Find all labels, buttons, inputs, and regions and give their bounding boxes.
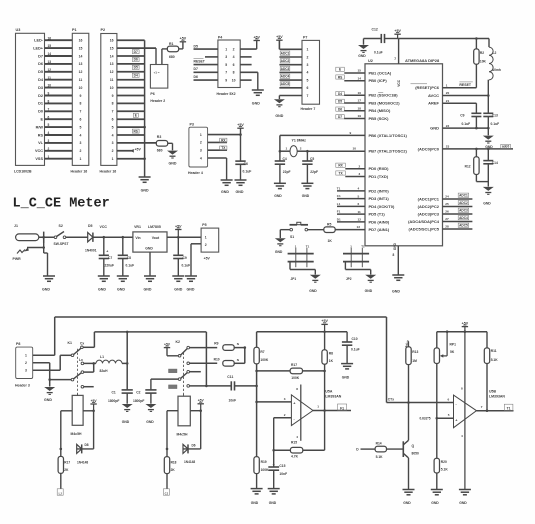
net label T1 wire to U2 pin 4 xyxy=(337,190,365,192)
svg-text:+5V: +5V xyxy=(204,256,211,260)
svg-text:10K: 10K xyxy=(480,60,487,64)
wire P4 pin7 with net label D7 xyxy=(194,71,218,73)
svg-text:PD0 (RXD): PD0 (RXD) xyxy=(369,166,390,171)
svg-text:GND: GND xyxy=(122,420,130,424)
capacitor C7 220uF xyxy=(103,237,105,255)
wire C12 to +5V node xyxy=(385,38,399,40)
wire K2 pole2 stub xyxy=(190,371,201,373)
capacitor C5 22pF xyxy=(306,151,308,161)
svg-text:D6: D6 xyxy=(134,58,138,62)
svg-text:PD4 (XCK/T0): PD4 (XCK/T0) xyxy=(369,204,395,209)
power +5V at U5A rail xyxy=(321,323,327,325)
svg-text:100K: 100K xyxy=(291,376,300,380)
svg-text:PB4 (MISO): PB4 (MISO) xyxy=(369,108,391,113)
svg-text:GND: GND xyxy=(269,501,277,505)
svg-text:LM393AN: LM393AN xyxy=(325,394,341,398)
svg-text:6: 6 xyxy=(233,63,235,67)
svg-text:6: 6 xyxy=(358,202,360,206)
svg-text:+5V: +5V xyxy=(321,319,328,323)
wire K1 NC stub xyxy=(84,386,94,388)
svg-text:D5: D5 xyxy=(338,100,342,104)
svg-text:ADC5: ADC5 xyxy=(281,82,290,86)
svg-text:GND: GND xyxy=(275,250,283,254)
svg-text:C7: C7 xyxy=(108,256,112,260)
svg-text:F1: F1 xyxy=(337,210,341,214)
svg-text:VL: VL xyxy=(38,141,44,145)
ground at P4 xyxy=(252,90,264,95)
svg-text:9: 9 xyxy=(350,131,352,135)
svg-text:22pF: 22pF xyxy=(283,170,291,174)
diode D5 1N4001 xyxy=(88,233,93,242)
svg-text:ADC3: ADC3 xyxy=(459,209,468,213)
junction R2 top xyxy=(475,37,478,40)
svg-text:28: 28 xyxy=(445,225,449,229)
junction P2 pin5 xyxy=(143,126,146,129)
wire K1 pole2 throw xyxy=(84,371,94,373)
svg-text:16: 16 xyxy=(79,39,83,43)
ground at U5B xyxy=(459,490,471,495)
svg-text:5: 5 xyxy=(448,413,450,417)
svg-text:PD7 (AIN1): PD7 (AIN1) xyxy=(369,227,390,232)
wire P4 pin1 with net label D5 xyxy=(194,48,218,50)
svg-text:17: 17 xyxy=(358,99,362,103)
svg-text:4: 4 xyxy=(80,133,82,137)
svg-text:R7: R7 xyxy=(260,350,264,354)
wire U2 pin22 GND xyxy=(443,127,489,129)
svg-text:ADC4: ADC4 xyxy=(459,216,468,220)
svg-text:11: 11 xyxy=(110,78,114,82)
power +5V at K2 pole1 xyxy=(164,347,170,349)
svg-text:U5B: U5B xyxy=(489,390,496,394)
svg-text:0.1uF: 0.1uF xyxy=(351,347,360,351)
svg-text:PD5 (T1): PD5 (T1) xyxy=(369,212,386,217)
svg-text:M4c5H: M4c5H xyxy=(177,432,188,436)
svg-text:adc0: adc0 xyxy=(502,145,509,149)
transistor Q 8050 xyxy=(402,441,404,457)
svg-text:VR1: VR1 xyxy=(134,225,141,229)
svg-text:Header 4: Header 4 xyxy=(188,171,203,175)
svg-text:Header 7: Header 7 xyxy=(301,107,316,111)
svg-text:D7: D7 xyxy=(338,115,342,119)
svg-text:D5: D5 xyxy=(38,70,43,74)
svg-text:8: 8 xyxy=(233,71,235,75)
svg-text:K1: K1 xyxy=(68,341,73,345)
svg-text:100K: 100K xyxy=(261,468,270,472)
wire U2 pin21 AREF xyxy=(443,102,477,104)
svg-text:2: 2 xyxy=(48,147,50,151)
junction adc0 R12 xyxy=(475,148,478,151)
svg-text:5K: 5K xyxy=(450,350,455,354)
svg-text:D0: D0 xyxy=(38,110,43,114)
ADC header P7 xyxy=(302,40,320,104)
svg-text:10mh: 10mh xyxy=(492,68,501,72)
svg-text:+5V: +5V xyxy=(164,342,171,346)
svg-text:E: E xyxy=(135,114,137,118)
wire D5 to VR1 Vin xyxy=(93,236,133,238)
svg-text:C9: C9 xyxy=(183,256,187,260)
junction C13 bottom xyxy=(487,127,490,130)
junction Lx xyxy=(92,362,95,365)
svg-text:R14: R14 xyxy=(376,442,382,446)
svg-text:GND: GND xyxy=(459,501,467,505)
svg-text:T1: T1 xyxy=(361,244,365,248)
resistor R17 xyxy=(58,456,63,473)
resistor R10 xyxy=(223,361,234,367)
svg-text:1: 1 xyxy=(25,354,27,358)
svg-text:10nF: 10nF xyxy=(229,398,237,402)
svg-text:JP1: JP1 xyxy=(291,277,297,281)
svg-text:2: 2 xyxy=(359,164,361,168)
wire P4 pin4 stub xyxy=(240,56,251,58)
wire K1 coil right pin to +5V and D8 xyxy=(83,410,94,412)
potentiometer RP1 5K xyxy=(436,332,438,348)
wire P6 pin2 up xyxy=(161,49,163,65)
svg-text:0.1uF: 0.1uF xyxy=(126,264,135,268)
wire K2 throw1 to R9 xyxy=(190,347,218,349)
wire R1 to +5V xyxy=(179,48,183,50)
resistor R19 100K xyxy=(254,457,259,474)
power +5V at P7 xyxy=(276,39,282,41)
svg-text:Header 16: Header 16 xyxy=(100,169,117,173)
svg-text:2: 2 xyxy=(80,149,82,153)
svg-text:5.1K: 5.1K xyxy=(491,358,499,362)
svg-text:VCC: VCC xyxy=(35,149,43,153)
svg-text:LM393AN: LM393AN xyxy=(489,395,505,399)
svg-text:12: 12 xyxy=(48,68,52,72)
svg-text:4: 4 xyxy=(48,131,50,135)
svg-text:5: 5 xyxy=(48,123,50,127)
relay K2 coil xyxy=(178,396,190,426)
wire P6 pin1 to P2 pin15 xyxy=(155,48,157,64)
svg-text:R1: R1 xyxy=(169,42,174,46)
svg-text:PB1 (OC1A): PB1 (OC1A) xyxy=(369,70,392,75)
switch S2 SW-SPST xyxy=(54,236,57,239)
RP1 bottom to divider node xyxy=(436,364,438,459)
tiny net label at R17 xyxy=(57,489,63,495)
svg-text:19: 19 xyxy=(358,114,362,118)
svg-text:T1: T1 xyxy=(306,244,310,248)
svg-text:J1: J1 xyxy=(14,224,18,228)
wire K2 pole2 common to C2 xyxy=(151,378,178,380)
svg-text:1: 1 xyxy=(112,157,114,161)
wire P4 pin9 with net label D6 xyxy=(194,79,218,81)
svg-text:D5: D5 xyxy=(134,66,138,70)
wire P4 pin8 to ground xyxy=(240,71,258,73)
svg-text:6: 6 xyxy=(307,86,309,90)
svg-text:C1: C1 xyxy=(337,194,341,198)
svg-text:PB7 (XTAL2/TOSC2): PB7 (XTAL2/TOSC2) xyxy=(369,148,408,153)
svg-text:4: 4 xyxy=(461,434,463,438)
wire Cx contact to rail xyxy=(83,346,94,348)
svg-text:5.1K: 5.1K xyxy=(376,455,384,459)
U2 left pin name labels xyxy=(369,70,408,232)
svg-text:6: 6 xyxy=(112,118,114,122)
net label D1 wire to U2 pin 12 xyxy=(337,221,365,223)
wire L2 to AVCC node xyxy=(487,80,489,114)
svg-text:8: 8 xyxy=(296,387,298,391)
svg-text:GND: GND xyxy=(221,190,229,194)
svg-text:D6: D6 xyxy=(38,62,43,66)
svg-text:680: 680 xyxy=(157,149,163,153)
K2 actuator dashed line xyxy=(183,353,185,396)
wire to PB5 xyxy=(344,118,365,120)
svg-text:GND: GND xyxy=(483,202,491,206)
vertical wire C1 node xyxy=(126,332,128,390)
capacitor C4 22pF xyxy=(279,151,281,161)
svg-text:13: 13 xyxy=(48,60,52,64)
svg-text:8: 8 xyxy=(80,102,82,106)
svg-text:9: 9 xyxy=(225,78,227,82)
boxed net label E at PB1 xyxy=(336,67,345,71)
ground at C2 xyxy=(145,404,156,411)
svg-text:C10: C10 xyxy=(352,337,358,341)
svg-text:9: 9 xyxy=(48,92,50,96)
svg-text:GND: GND xyxy=(44,398,52,402)
svg-text:GND: GND xyxy=(117,288,125,292)
svg-text:7: 7 xyxy=(112,110,114,114)
wire P4 pin2 to +5V xyxy=(240,48,257,50)
wire P3 pin1 to +5V node xyxy=(208,134,241,136)
svg-text:1: 1 xyxy=(286,146,288,150)
boxed net label D6 at PB4 xyxy=(336,107,345,111)
svg-text:R11: R11 xyxy=(491,349,497,353)
svg-text:GND: GND xyxy=(145,247,153,251)
svg-text:2: 2 xyxy=(25,361,27,365)
wire R9 to junction xyxy=(234,347,245,349)
svg-text:7: 7 xyxy=(394,57,396,61)
svg-text:PB3 (MOSI/OC2): PB3 (MOSI/OC2) xyxy=(369,100,401,105)
capacitor C14 xyxy=(487,149,489,161)
K1 actuator dashed line xyxy=(76,349,78,396)
svg-text:D7: D7 xyxy=(194,67,198,71)
svg-text:23: 23 xyxy=(446,145,450,149)
U2 ADC pin wires with labels xyxy=(443,198,473,200)
svg-text:Header 16: Header 16 xyxy=(71,169,88,173)
svg-text:2K: 2K xyxy=(64,468,69,472)
wire K2 NC2 to C11 node xyxy=(190,385,207,387)
svg-text:GND: GND xyxy=(252,101,260,105)
svg-text:PD1 (TXD): PD1 (TXD) xyxy=(369,174,389,179)
wire R5 to U2 PD7 pin 13 xyxy=(335,229,365,231)
jumper JP1 xyxy=(288,254,314,262)
resistor R12 xyxy=(475,149,477,157)
wire P3 pin2 with net label RX xyxy=(208,141,227,143)
svg-text:P4: P4 xyxy=(218,35,222,39)
svg-text:(ADC1)PC1: (ADC1)PC1 xyxy=(418,196,440,201)
junction P2 pin1 xyxy=(143,157,146,160)
LCD module U3 xyxy=(16,33,45,165)
svg-text:25: 25 xyxy=(445,202,449,206)
ground at C9a xyxy=(172,276,184,281)
svg-text:4.7K: 4.7K xyxy=(291,454,299,458)
svg-text:2: 2 xyxy=(200,141,202,145)
svg-text:9: 9 xyxy=(112,94,114,98)
resistor R7 100K xyxy=(256,332,258,348)
header P1 xyxy=(72,33,89,165)
wire K2 coil right pin to +5V and D6 xyxy=(190,410,200,412)
svg-text:(RESET)PC6: (RESET)PC6 xyxy=(415,85,440,90)
K2 chinese label calibrate xyxy=(169,385,178,389)
svg-text:Vin: Vin xyxy=(135,236,140,240)
svg-text:0.632*5: 0.632*5 xyxy=(420,417,431,421)
svg-text:ADC3: ADC3 xyxy=(281,67,290,71)
svg-text:P8: P8 xyxy=(16,342,20,346)
junction +5V node xyxy=(177,236,180,239)
net label C1 wire to U2 pin 5 xyxy=(337,198,365,200)
ground at P8 xyxy=(44,387,55,394)
svg-text:+5V: +5V xyxy=(198,399,205,403)
junction adc0 C14 xyxy=(487,148,490,151)
wire noninverting input pin3 xyxy=(257,401,292,403)
capacitor C9 0.1uF xyxy=(471,112,481,114)
resistor R5 xyxy=(324,227,335,233)
svg-text:PB5 (SCK): PB5 (SCK) xyxy=(369,116,390,121)
svg-text:22: 22 xyxy=(446,124,450,128)
ground at C1 xyxy=(122,404,133,411)
ground at Q xyxy=(403,490,415,495)
power +5V at R1 xyxy=(180,41,186,43)
svg-text:8: 8 xyxy=(48,100,50,104)
RP1 wiper wire xyxy=(440,354,444,357)
svg-text:16: 16 xyxy=(358,91,362,95)
svg-text:D4: D4 xyxy=(134,74,138,78)
svg-text:S1: S1 xyxy=(290,235,294,239)
svg-text:2: 2 xyxy=(205,243,207,247)
svg-text:ADC5: ADC5 xyxy=(459,224,468,228)
svg-text:3: 3 xyxy=(80,141,82,145)
svg-text:8: 8 xyxy=(461,387,463,391)
svg-text:(ADC3)PC3: (ADC3)PC3 xyxy=(418,211,440,216)
svg-text:3: 3 xyxy=(284,397,286,401)
svg-text:0.1uF: 0.1uF xyxy=(491,122,500,126)
svg-text:U3: U3 xyxy=(16,28,21,32)
wire +5V to P7 pin1 xyxy=(278,40,280,49)
resistor R1 xyxy=(167,46,178,52)
svg-text:1: 1 xyxy=(200,133,202,137)
U5A output wire with label F1 xyxy=(313,410,351,412)
wire to PD1 xyxy=(345,175,365,177)
capacitor C2 1800pF xyxy=(145,389,156,391)
svg-text:PD3 (INT1): PD3 (INT1) xyxy=(369,196,390,201)
svg-text:T1: T1 xyxy=(507,407,511,411)
U2 GND pin 8 wire xyxy=(397,246,399,275)
ground bus GND xyxy=(139,177,151,182)
wire JP2 to ground xyxy=(344,262,346,270)
svg-text:GND: GND xyxy=(174,288,182,292)
power +5V at P3 xyxy=(237,127,243,129)
svg-text:LED+: LED+ xyxy=(33,46,44,50)
svg-text:D5: D5 xyxy=(194,45,198,49)
jumper JP2 xyxy=(343,254,369,262)
svg-text:9: 9 xyxy=(80,94,82,98)
svg-text:P6: P6 xyxy=(150,92,154,96)
svg-text:5: 5 xyxy=(307,78,309,82)
svg-text:D3: D3 xyxy=(38,86,43,90)
svg-text:K2: K2 xyxy=(176,340,181,344)
svg-text:C8: C8 xyxy=(127,256,131,260)
resistor R9 xyxy=(223,345,234,351)
jack switch contact xyxy=(17,250,25,254)
svg-text:GND: GND xyxy=(42,288,50,292)
ground at VR1 xyxy=(144,276,156,281)
ground at C4 xyxy=(274,183,286,188)
microcontroller U2 box xyxy=(365,64,443,246)
svg-text:PD2 (INT0): PD2 (INT0) xyxy=(369,188,390,193)
wire K2 NC1 to R10 xyxy=(190,362,218,364)
svg-text:GND: GND xyxy=(342,376,350,380)
svg-text:R5: R5 xyxy=(327,222,331,226)
junction crystal pin1 xyxy=(279,150,282,153)
wire P5 pin2 to ground xyxy=(191,243,201,245)
resistor R18 xyxy=(164,457,169,474)
svg-text:5.1K: 5.1K xyxy=(441,467,449,471)
svg-text:C5: C5 xyxy=(310,157,314,161)
svg-text:R8: R8 xyxy=(329,351,333,355)
+5V rail above U5A xyxy=(257,331,348,333)
svg-text:16: 16 xyxy=(110,39,114,43)
svg-text:GND: GND xyxy=(403,501,411,505)
wire U2 pin1 RESET xyxy=(443,87,477,89)
ground at P3 pin4 xyxy=(221,180,233,185)
+5V rail above U5B xyxy=(437,331,487,333)
svg-text:5: 5 xyxy=(225,63,227,67)
net label F1 wire to U2 pin 11 xyxy=(337,213,365,215)
wire +5V to U2 pin7 xyxy=(398,39,400,64)
svg-text:Q: Q xyxy=(412,444,415,448)
svg-text:5: 5 xyxy=(358,194,360,198)
svg-text:M4c5H: M4c5H xyxy=(71,432,82,436)
wire P7 pin5 with net label ADC4 xyxy=(279,79,302,81)
ground at C7 xyxy=(98,276,110,281)
svg-text:D6: D6 xyxy=(338,107,342,111)
svg-text:7: 7 xyxy=(307,94,309,98)
capacitor C9a 0.1uF xyxy=(177,237,179,255)
svg-text:8: 8 xyxy=(393,253,395,257)
ground at C13 xyxy=(483,136,494,143)
svg-text:CJ: CJ xyxy=(165,491,169,495)
inductor L2 10mh xyxy=(488,39,490,48)
svg-text:R13: R13 xyxy=(412,350,418,354)
svg-text:18: 18 xyxy=(358,106,362,110)
wire P8 pin3 to K1 pole1 xyxy=(33,369,61,371)
svg-text:15: 15 xyxy=(48,44,52,48)
wire to PB4 xyxy=(344,110,365,112)
svg-text:L1: L1 xyxy=(100,355,104,359)
wire P4 pin3 xyxy=(205,56,218,58)
ground at C15 xyxy=(268,489,280,494)
net label L1 wire to U2 pin 6 xyxy=(337,205,365,207)
svg-text:4: 4 xyxy=(358,187,360,191)
svg-text:+5V: +5V xyxy=(462,321,469,325)
svg-text:R9: R9 xyxy=(214,342,218,346)
wire P4 pin6 stub xyxy=(240,64,251,66)
resistor R14 5.1K xyxy=(375,446,386,452)
svg-text:GND: GND xyxy=(430,126,439,131)
svg-text:CTx: CTx xyxy=(388,397,394,401)
svg-text:10: 10 xyxy=(353,147,357,151)
wire crystal to PB6 xyxy=(280,134,365,136)
svg-text:L_C_CE Meter: L_C_CE Meter xyxy=(13,197,110,212)
svg-text:1M: 1M xyxy=(412,359,417,363)
inverting node vertical xyxy=(273,418,275,467)
svg-text:GND: GND xyxy=(98,288,106,292)
svg-text:PD6 (AIN0): PD6 (AIN0) xyxy=(369,219,390,224)
wire S2 to D5 xyxy=(66,236,88,238)
svg-text:C15: C15 xyxy=(279,464,285,468)
svg-text:VCC: VCC xyxy=(100,225,108,229)
resistor R20 5.1K xyxy=(434,458,439,473)
ground at R19 xyxy=(251,489,263,494)
